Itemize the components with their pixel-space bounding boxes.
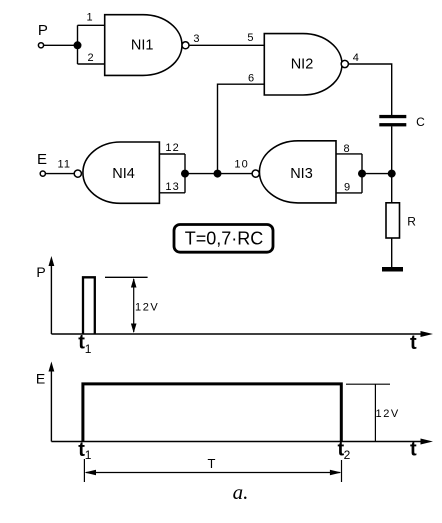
svg-text:NI2: NI2 [291, 57, 314, 73]
dimension extension line t2 [341, 460, 343, 482]
NAND gate NI4 mirrored [83, 142, 159, 203]
resistor R [386, 203, 400, 238]
diagram1 12V ref line [105, 276, 148, 278]
wire cap to ground [391, 126, 393, 267]
svg-text:12: 12 [165, 142, 179, 154]
svg-text:2: 2 [87, 52, 93, 64]
wire NI4 output bar [184, 154, 186, 193]
diagram1 y-axis [50, 263, 52, 334]
svg-text:E: E [36, 371, 45, 387]
svg-text:10: 10 [234, 159, 248, 171]
diagram2 y-axis [50, 368, 52, 442]
diagram2 12V drop line [374, 384, 376, 441]
svg-text:a.: a. [233, 480, 249, 504]
node CR junction [388, 170, 396, 178]
node junction P inputs [74, 41, 82, 49]
wire P to junction [44, 44, 78, 46]
svg-text:12V: 12V [135, 301, 159, 313]
diagram1 pulse P [83, 277, 95, 334]
diagram2 12V ref line [346, 383, 390, 385]
wire pin 6 [218, 84, 265, 173]
dimension extension line t1 [83, 459, 85, 482]
svg-text:NI4: NI4 [112, 166, 135, 182]
svg-text:4: 4 [353, 52, 359, 64]
svg-text:T=0,7·RC: T=0,7·RC [185, 229, 264, 249]
svg-text:1: 1 [86, 11, 92, 23]
NAND gate NI2 [264, 34, 342, 95]
bubble NI1 output [182, 42, 189, 49]
svg-text:2: 2 [344, 448, 351, 462]
NAND gate NI1 [105, 15, 182, 76]
svg-text:NI1: NI1 [131, 38, 154, 54]
diagram2 pulse E [83, 384, 341, 442]
svg-text:11: 11 [57, 158, 71, 170]
wire input bar [77, 25, 79, 64]
svg-text:C: C [416, 115, 425, 129]
capacitor C1 bottom plate [379, 123, 406, 126]
bubble NI3 output [252, 170, 259, 177]
node NI4 output bar [181, 170, 189, 178]
svg-text:3: 3 [193, 33, 199, 45]
wire pin 2 [78, 63, 105, 65]
wire net 3 to pin 5 [189, 44, 264, 46]
wire pin 9 [336, 192, 362, 194]
diagram1 12V arrow [133, 279, 135, 332]
wire node to NI3 inputs [362, 173, 392, 175]
wire pin 1 [78, 24, 105, 26]
diagram1 x-axis [51, 333, 424, 335]
svg-text:1: 1 [85, 448, 92, 462]
wire pin 13 [159, 192, 185, 194]
svg-text:12V: 12V [376, 408, 400, 420]
svg-text:NI3: NI3 [290, 166, 313, 182]
svg-text:1: 1 [85, 342, 92, 356]
wire E to NI4 [45, 173, 74, 175]
wire pin 12 [159, 153, 185, 155]
svg-text:E: E [37, 151, 47, 168]
terminal E [40, 171, 45, 176]
wire pin 8 [336, 153, 362, 155]
ground [382, 267, 403, 272]
svg-text:R: R [407, 215, 416, 229]
svg-text:T: T [208, 456, 216, 471]
dimension line T [86, 472, 340, 474]
svg-text:P: P [36, 264, 45, 280]
svg-text:t: t [410, 439, 417, 461]
svg-text:13: 13 [165, 181, 179, 193]
diagram2 x-axis [51, 441, 424, 443]
terminal P [38, 43, 43, 48]
capacitor C1 top plate [379, 115, 406, 118]
svg-text:5: 5 [247, 32, 253, 44]
bubble NI4 output [74, 170, 81, 177]
wire net 4 [348, 64, 391, 115]
svg-text:6: 6 [248, 73, 254, 85]
svg-text:8: 8 [343, 143, 349, 155]
wire NI3 input bar [361, 154, 363, 193]
svg-text:9: 9 [344, 181, 350, 193]
NAND gate NI3 mirrored [259, 141, 336, 203]
formula box [174, 225, 273, 253]
bubble NI2 output [341, 60, 348, 67]
node net10 junction a [214, 170, 222, 178]
wire net 10 [185, 173, 252, 175]
node NI3 input bar [358, 170, 366, 178]
svg-text:t: t [410, 332, 417, 354]
svg-text:P: P [38, 22, 48, 39]
